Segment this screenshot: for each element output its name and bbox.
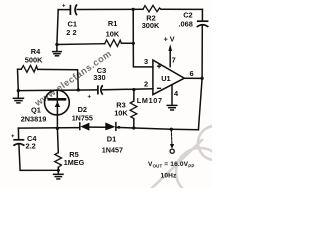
svg-text:3: 3 (144, 57, 148, 66)
svg-text:.068: .068 (179, 19, 193, 28)
svg-text:10K: 10K (114, 108, 128, 117)
svg-text:R1: R1 (108, 19, 117, 28)
svg-text:330: 330 (93, 73, 105, 82)
svg-text:+ V: + V (164, 34, 175, 43)
svg-text:7: 7 (172, 55, 176, 64)
svg-text:1MEG: 1MEG (64, 158, 85, 167)
svg-text:VOUT = 16.0VPP: VOUT = 16.0VPP (148, 161, 194, 168)
svg-text:2: 2 (144, 80, 148, 89)
svg-text:500K: 500K (25, 56, 43, 65)
svg-text:D1: D1 (107, 134, 116, 143)
svg-text:1N457: 1N457 (102, 145, 123, 154)
svg-text:Q1: Q1 (31, 106, 41, 115)
svg-text:2 2: 2 2 (66, 28, 76, 37)
svg-text:10Hz: 10Hz (161, 173, 178, 180)
svg-text:C2: C2 (183, 10, 192, 19)
svg-text:+: + (88, 95, 92, 101)
svg-text:6: 6 (190, 69, 194, 78)
svg-text:+: + (62, 3, 66, 9)
svg-text:10K: 10K (106, 29, 120, 38)
svg-text:U1: U1 (161, 74, 170, 83)
svg-text:+: + (11, 134, 15, 140)
svg-text:2N3819: 2N3819 (21, 114, 47, 123)
svg-text:4: 4 (174, 89, 179, 98)
svg-text:LM107: LM107 (137, 96, 163, 105)
svg-text:1N755: 1N755 (72, 113, 93, 122)
svg-text:2.2: 2.2 (26, 142, 36, 151)
svg-text:R4: R4 (31, 47, 41, 56)
svg-text:300K: 300K (142, 21, 160, 30)
